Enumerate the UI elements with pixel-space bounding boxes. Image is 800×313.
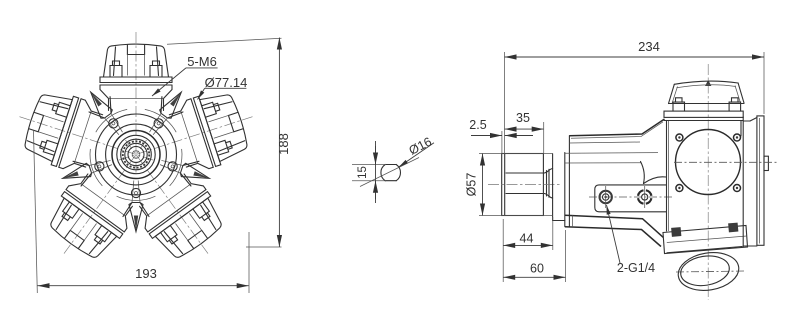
svg-text:2.5: 2.5	[469, 118, 486, 132]
svg-text:60: 60	[530, 262, 544, 276]
svg-text:5-M6: 5-M6	[187, 54, 217, 69]
svg-text:35: 35	[516, 111, 530, 125]
svg-text:193: 193	[135, 266, 157, 281]
svg-text:15: 15	[357, 166, 369, 179]
svg-text:Ø57: Ø57	[465, 173, 479, 197]
svg-text:44: 44	[520, 232, 534, 246]
svg-text:188: 188	[276, 133, 291, 155]
svg-text:Ø16: Ø16	[407, 135, 434, 158]
svg-text:234: 234	[638, 39, 660, 54]
svg-text:2-G1/4: 2-G1/4	[617, 261, 655, 275]
svg-text:Ø77.14: Ø77.14	[205, 75, 248, 90]
